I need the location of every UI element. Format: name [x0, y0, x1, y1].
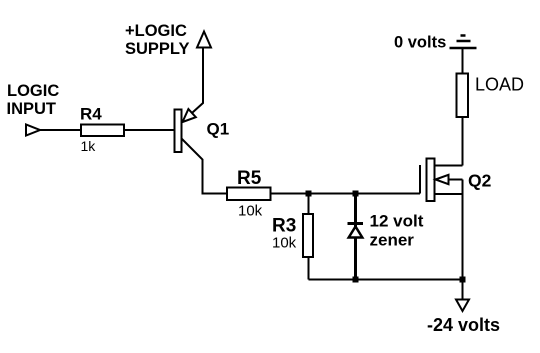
svg-text:INPUT: INPUT: [7, 100, 57, 118]
svg-text:LOAD: LOAD: [475, 75, 524, 95]
svg-text:10k: 10k: [272, 235, 297, 252]
svg-text:12 volt: 12 volt: [370, 212, 424, 231]
svg-text:+LOGIC: +LOGIC: [125, 22, 187, 40]
svg-text:10k: 10k: [238, 203, 263, 220]
svg-text:R5: R5: [237, 168, 262, 189]
svg-text:1k: 1k: [81, 138, 97, 154]
svg-text:SUPPLY: SUPPLY: [125, 40, 190, 58]
svg-text:R4: R4: [80, 105, 102, 124]
svg-text:LOGIC: LOGIC: [7, 82, 59, 100]
svg-text:R3: R3: [272, 216, 296, 237]
svg-text:zener: zener: [370, 230, 415, 249]
svg-text:Q2: Q2: [468, 171, 492, 191]
svg-text:Q1: Q1: [207, 120, 230, 139]
svg-text:0 volts: 0 volts: [394, 34, 446, 52]
svg-text:-24 volts: -24 volts: [427, 315, 500, 335]
